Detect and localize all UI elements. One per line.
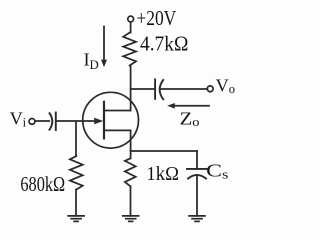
svg-text:1kΩ: 1kΩ xyxy=(146,163,179,185)
svg-text:680kΩ: 680kΩ xyxy=(20,172,65,196)
svg-text:4.7kΩ: 4.7kΩ xyxy=(140,32,188,56)
svg-text:+20V: +20V xyxy=(136,6,176,30)
